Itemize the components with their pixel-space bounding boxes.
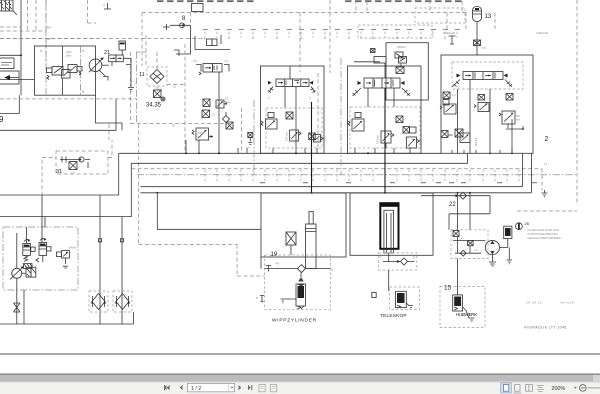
svg-text:KUEHLER: KUEHLER <box>443 31 455 35</box>
orifice 15 <box>202 110 215 118</box>
valve 14 boxes <box>195 35 230 50</box>
valve WIPP compensator <box>261 113 277 130</box>
valve TELESKOP pre-comp box 250bar <box>371 43 429 100</box>
relief valve 190bar <box>192 128 213 140</box>
cylinder box WIPP lower <box>261 193 346 269</box>
valve 31 assembly <box>42 140 112 202</box>
valve pilot 2-pos <box>193 59 229 75</box>
wire bus return A <box>140 153 522 186</box>
node label WIPPZYLINDER <box>272 318 317 324</box>
node top dashed frame <box>0 0 466 73</box>
node MP dashed lines top-left <box>0 0 96 66</box>
node HP labels <box>47 26 51 42</box>
valve pilot check WIPP <box>298 273 304 288</box>
wire bus return B <box>140 153 531 193</box>
svg-text:300 bar: 300 bar <box>475 137 478 146</box>
cylinder box TELESKOP lower <box>350 193 433 255</box>
svg-text:0,5: 0,5 <box>225 59 229 63</box>
svg-text:5bar: 5bar <box>225 100 231 104</box>
valve HUBWERK spool <box>452 72 512 88</box>
pump unit P9 box <box>34 46 95 95</box>
valve tank shutoff <box>14 303 21 312</box>
valve V33 with arrow <box>0 71 19 84</box>
valve LS regulator cluster <box>47 65 83 80</box>
svg-text:250bar: 250bar <box>397 45 406 49</box>
svg-text:180 bar: 180 bar <box>376 135 380 144</box>
valve TELESKOP port dashed box <box>378 253 417 270</box>
accumulator 13 <box>473 7 492 56</box>
valve V31 left box with label <box>1 62 12 66</box>
orifice with 34,35 label <box>146 87 165 109</box>
wire <box>0 95 19 113</box>
svg-text:harry68: harry68 <box>560 301 574 305</box>
svg-text:200%: 200% <box>552 386 566 392</box>
valve WIPP spool <box>268 66 316 100</box>
relief valve 180bar <box>376 131 395 148</box>
valve hub dark cluster <box>441 129 478 146</box>
orifice 10 <box>226 122 233 129</box>
orifice pair hub <box>443 94 513 106</box>
svg-text:DD: DD <box>516 114 520 118</box>
svg-text:KUGELHAHN DARF NUR: KUGELHAHN DARF NUR <box>528 228 559 232</box>
svg-text:190: 190 <box>198 131 203 135</box>
svg-text:06.08.26: 06.08.26 <box>526 301 542 305</box>
filter 11 <box>139 67 167 86</box>
node bracket 4 <box>103 3 111 9</box>
wire <box>0 0 22 95</box>
node harness stubs <box>205 170 519 184</box>
filter F2 <box>113 291 132 312</box>
node label 15 <box>444 285 452 292</box>
wire WIPP feed <box>157 193 261 230</box>
valve hub brake cartridge <box>500 226 512 247</box>
valve HUBWERK lower dashed box <box>440 259 485 328</box>
relief valve 360bar <box>285 130 302 141</box>
valve orifice box 19 <box>271 232 297 258</box>
pump P3 hub motor <box>485 240 499 265</box>
svg-text:5bar: 5bar <box>66 54 71 58</box>
valve WIPP lowering brake dashed box <box>265 255 333 310</box>
valve TELESKOP spool <box>353 78 411 96</box>
wire <box>62 46 64 95</box>
svg-text:2: 2 <box>545 136 549 143</box>
orifice 1.6 <box>396 116 403 123</box>
svg-text:22: 22 <box>449 202 456 208</box>
orifice 32 <box>246 132 253 149</box>
svg-text:0,5: 0,5 <box>482 46 486 50</box>
wire port drop stubs <box>238 148 512 153</box>
valve block WIPP box <box>261 66 325 153</box>
node bus junction dots <box>156 152 513 194</box>
svg-text:26: 26 <box>525 221 530 226</box>
wire spool drops hubwerk <box>458 80 513 154</box>
wire spool drops <box>285 87 312 193</box>
svg-text:bar: bar <box>516 118 520 122</box>
node page bottom edge <box>0 353 600 355</box>
svg-text:0,5: 0,5 <box>193 59 197 63</box>
valve TELESKOP pilots top <box>354 57 404 79</box>
cylinder WIPP <box>306 211 317 268</box>
svg-text:360 bar: 360 bar <box>285 132 289 141</box>
valve hub cluster1 <box>440 104 456 114</box>
svg-text:GESCHLOSSEN WERDEN: GESCHLOSSEN WERDEN <box>528 236 561 240</box>
svg-text:340bar: 340bar <box>69 246 77 250</box>
pump P1 main pump circle <box>89 58 108 81</box>
svg-text:30: 30 <box>172 124 176 128</box>
relief valve 340bar <box>57 246 77 269</box>
wire bus P <box>119 152 441 154</box>
wire filter risers <box>0 195 133 324</box>
node HUBWERK inner dashed box <box>452 62 523 89</box>
check valve 22 <box>421 192 490 230</box>
valve V30 top-left hatched block <box>0 0 17 15</box>
svg-text:15: 15 <box>444 285 452 292</box>
valve WIPP right cluster <box>309 133 323 142</box>
valve hub cluster2 <box>474 95 489 112</box>
node cooler labels <box>443 13 548 36</box>
svg-text:IN MONTAGEZWECKEN: IN MONTAGEZWECKEN <box>528 232 558 236</box>
svg-text:13: 13 <box>485 14 492 20</box>
pump unit 2 dash-dot box <box>3 227 78 290</box>
wire main riser x219 <box>218 72 220 153</box>
wire spool drops teleskop <box>368 88 394 193</box>
svg-text:MP: MP <box>47 37 51 41</box>
valve hub manifold internals <box>453 231 485 257</box>
svg-text:LMG: LMG <box>66 50 72 54</box>
node bus port labels <box>260 182 537 183</box>
node title text <box>524 326 567 330</box>
wire bus LS dashed <box>131 163 547 197</box>
valve V32 small box <box>0 58 14 69</box>
svg-text:HUBWERK: HUBWERK <box>456 312 478 317</box>
node label HUBWERK <box>456 312 478 317</box>
svg-text:3,4: 3,4 <box>246 146 250 150</box>
svg-text:2.5: 2.5 <box>211 113 215 117</box>
node right dashed frame <box>517 0 577 211</box>
node bus dash-dot <box>137 174 577 176</box>
valve 23 cluster <box>216 97 231 109</box>
valve B accumulator-style <box>36 238 51 262</box>
valve A accumulator-style <box>23 239 35 268</box>
svg-text:31: 31 <box>56 169 62 175</box>
svg-text:34,35: 34,35 <box>146 103 162 109</box>
wire P-line <box>0 163 131 216</box>
relief valve 330bar <box>499 111 524 130</box>
node 9 label <box>0 115 4 124</box>
node label TELESKOP <box>380 313 407 319</box>
check valve <box>223 112 230 126</box>
node A dash-dot lines in pump box <box>40 0 85 95</box>
valve WIPP holding cartridge <box>281 284 306 309</box>
orifice WIPP <box>286 112 293 119</box>
orifice 16 <box>203 99 210 107</box>
node warning text <box>528 228 561 240</box>
gauge M21 <box>119 41 126 55</box>
svg-text:PW: PW <box>275 262 280 266</box>
svg-text:KUEHLER: KUEHLER <box>536 31 548 35</box>
wire <box>102 64 109 66</box>
valve TELESKOP holding cartridge <box>372 270 420 310</box>
svg-text:B: B <box>331 268 333 272</box>
svg-text:10: 10 <box>173 85 177 89</box>
wire bus T <box>131 153 467 163</box>
valve TELESKOP right cluster <box>403 127 420 149</box>
wire T-line <box>0 153 119 195</box>
valve TELESKOP compensator <box>348 113 364 132</box>
svg-text:WIPPZYLINDER: WIPPZYLINDER <box>272 318 317 324</box>
svg-text:T2: T2 <box>544 163 548 167</box>
svg-text:1 / 2: 1 / 2 <box>191 386 201 392</box>
node label 8 bracket <box>256 296 264 302</box>
node dash-dot mid column <box>241 58 341 175</box>
svg-text:0.4: 0.4 <box>71 171 75 175</box>
svg-text:11: 11 <box>139 72 145 78</box>
svg-text:TELESKOP: TELESKOP <box>380 313 407 319</box>
check valve 8 <box>163 16 191 56</box>
node label 2 <box>545 136 549 143</box>
wire pump case drain <box>96 95 123 130</box>
svg-text:3.0: 3.0 <box>452 93 456 97</box>
svg-text:9: 9 <box>0 115 4 124</box>
valve accumulator isolator <box>449 36 486 50</box>
node WIPP inner dashed box <box>266 108 322 148</box>
wire valve 21 to tank <box>123 58 134 91</box>
node signature text <box>526 301 574 305</box>
orifice hub left <box>443 92 456 99</box>
wire stubs to bus <box>186 140 199 153</box>
node TELESKOP inner dashed box <box>350 107 420 148</box>
valve block TELESKOP box <box>348 66 422 153</box>
valve 21 solenoid valve <box>104 50 123 66</box>
valve block HUBWERK box <box>441 55 533 153</box>
filter F1 <box>89 291 108 312</box>
wire <box>0 79 34 81</box>
node port tick row <box>203 29 460 39</box>
pump P2 charge pump <box>10 266 36 279</box>
svg-text:HYDRAULIK LTT 1045: HYDRAULIK LTT 1045 <box>524 326 567 330</box>
svg-text:bar: bar <box>198 135 202 139</box>
node dashed links left-mid <box>109 13 230 154</box>
node tank hub <box>507 248 512 264</box>
node warning 26 <box>516 218 530 235</box>
wire dashed MP line <box>0 98 137 100</box>
svg-text:MP: MP <box>47 26 51 30</box>
cylinder TELESKOP <box>380 203 398 262</box>
node dashed pilot line to PW <box>139 124 265 276</box>
valve HUBWERK manifold dashed box <box>451 193 488 259</box>
wire <box>0 99 116 130</box>
wire <box>17 195 45 324</box>
